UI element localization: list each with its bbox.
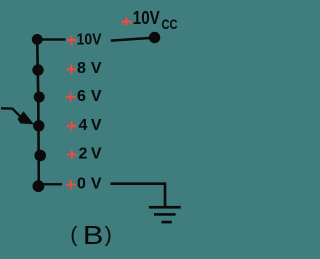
label +0V bbox=[66, 176, 102, 193]
wire: 0V to ground bbox=[111, 184, 166, 206]
svg-text:CC: CC bbox=[162, 16, 178, 32]
svg-text:): ) bbox=[105, 223, 112, 247]
svg-text:B: B bbox=[83, 222, 104, 251]
node: VCC terminal bbox=[149, 32, 160, 43]
node: +6V tap bbox=[34, 92, 45, 103]
label +2V bbox=[67, 145, 101, 162]
svg-text:4V: 4V bbox=[79, 117, 102, 134]
svg-text:10V: 10V bbox=[133, 7, 160, 28]
wiper arrow bbox=[1, 108, 34, 124]
node: +4V tap bbox=[33, 120, 44, 131]
ground bbox=[149, 206, 181, 224]
label +10V bbox=[67, 31, 102, 48]
label +8V bbox=[67, 60, 102, 77]
svg-text:(: ( bbox=[70, 223, 78, 247]
wire: +10V label to VCC terminal bbox=[111, 38, 153, 41]
svg-text:2V: 2V bbox=[79, 145, 102, 162]
label +4V bbox=[67, 117, 102, 134]
node: +10V tap bbox=[32, 34, 43, 45]
wire: 0V node to label bbox=[44, 183, 63, 185]
label (B) bbox=[70, 222, 111, 251]
label +10VCC bbox=[122, 7, 178, 32]
wire: vertical tap bus bbox=[37, 39, 39, 186]
label +6V bbox=[66, 88, 102, 105]
svg-text:10V: 10V bbox=[77, 31, 102, 48]
node: +8V tap bbox=[32, 64, 43, 75]
node: 0V tap bbox=[33, 180, 45, 192]
wire: +10V node to label bbox=[37, 38, 66, 40]
node: +2V tap bbox=[34, 150, 46, 162]
